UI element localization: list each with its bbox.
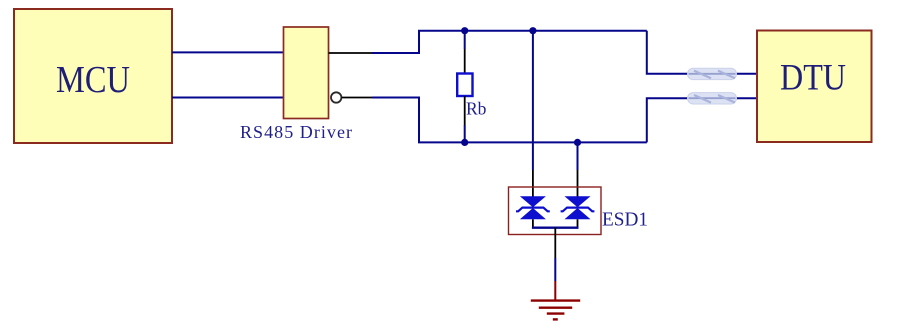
wire node A down to ESD diode 1 (crosses node B, no connection) bbox=[532, 31, 534, 170]
ESD1 component box bbox=[509, 187, 602, 235]
svg-text:Rb: Rb bbox=[466, 99, 487, 119]
wire node B down to ESD diode 2 bbox=[577, 142, 579, 170]
node A top bus wire bbox=[418, 30, 647, 32]
junction dot bottom of Rb bbox=[461, 139, 468, 146]
wire ESD to ground bbox=[554, 258, 556, 281]
ground symbol bbox=[531, 301, 580, 320]
junction dot top of Rb bbox=[461, 27, 468, 34]
wire joining diode bottoms bbox=[532, 226, 579, 228]
wire node A down to Rb bbox=[464, 31, 466, 49]
ESD diode 2 top pin (black) bbox=[577, 170, 579, 206]
junction dot node A to ESD bbox=[529, 27, 536, 34]
wire from top pin up to node A bus bbox=[372, 31, 419, 53]
resistor Rb top pin (black) bbox=[464, 49, 466, 74]
diode 1 bottom pin (black) bbox=[532, 219, 534, 227]
svg-text:ESD1: ESD1 bbox=[602, 210, 648, 231]
resistor Rb bottom pin (black) bbox=[464, 96, 466, 125]
wire node A to DTU top bbox=[647, 31, 757, 74]
TVS diode D2 (bidirectional) bbox=[561, 196, 595, 219]
ESD diode 1 top pin (black) bbox=[532, 170, 534, 206]
TVS diode D1 (bidirectional) bbox=[516, 196, 550, 219]
ESD common pin down (black) bbox=[554, 228, 556, 258]
twisted-pair cable symbol 1 bbox=[688, 68, 737, 79]
node B bottom bus wire bbox=[418, 141, 647, 143]
svg-text:DTU: DTU bbox=[780, 58, 846, 99]
svg-text:RS485 Driver: RS485 Driver bbox=[240, 122, 352, 142]
diode 2 bottom pin (black) bbox=[577, 219, 579, 227]
ground lead bbox=[554, 281, 556, 300]
twisted-pair cable symbol 2 bbox=[688, 93, 737, 104]
wire MCU to driver top bbox=[172, 51, 284, 53]
MCU U? block bbox=[14, 9, 172, 143]
inverter bubble on driver output pin bbox=[331, 92, 341, 102]
wire MCU to driver bottom bbox=[172, 97, 284, 99]
RS485 Driver U? block bbox=[240, 27, 352, 142]
resistor Rb body bbox=[457, 74, 472, 97]
pin driver top-right (black) bbox=[329, 52, 373, 54]
pin driver bottom-right after bubble (black) bbox=[342, 97, 372, 99]
svg-text:MCU: MCU bbox=[56, 59, 130, 101]
DTU block bbox=[757, 31, 872, 143]
junction dot node B to ESD bbox=[574, 139, 581, 146]
wire Rb to node B bbox=[464, 125, 466, 142]
wire from bottom pin down to node B bus bbox=[372, 98, 419, 143]
wire node B to DTU bottom bbox=[647, 98, 757, 142]
